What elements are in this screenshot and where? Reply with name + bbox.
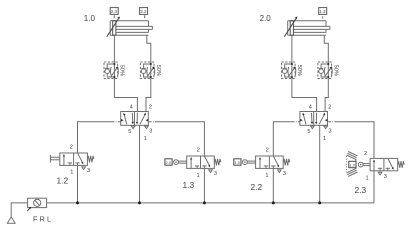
spring return of valve 2.2 <box>283 159 290 166</box>
wire: valve 2.2 port 1 to manifold <box>272 168 274 202</box>
svg-text:FRL: FRL <box>33 214 53 223</box>
pilot line from valve 1.3 to valve 1.1 port 12 <box>148 122 204 156</box>
wire: flow valve 2.02 to valve 2.1 port 2 <box>325 79 328 112</box>
svg-text:1.2: 1.2 <box>57 176 69 186</box>
junction node at valve 1.1 <box>138 201 141 204</box>
valve 1.2 exhaust triangle port 3 <box>82 167 86 170</box>
junction node flow valve bottom <box>113 76 115 78</box>
wire: valve 2.3 port 1 down to manifold corner <box>373 171 375 203</box>
svg-text:3: 3 <box>214 171 217 177</box>
svg-text:50%: 50% <box>118 65 124 76</box>
wire: cylinder 2.0 cap port down to flow valve 2.01 <box>291 35 293 62</box>
wire: cylinder 2.0 rod port down to flow valve 2.02 <box>324 35 328 62</box>
junction node at valve 1.3 <box>203 201 206 204</box>
one-way flow control valve 1.02 (50%) <box>140 62 160 79</box>
junction node flow valve bottom <box>327 76 329 78</box>
valve 1.1 port labels <box>128 105 152 143</box>
junction node at valve 2.1 <box>318 201 321 204</box>
wire: valve 1.1 port 1 to manifold <box>139 125 141 203</box>
junction node flow valve bottom <box>291 76 293 78</box>
svg-text:1: 1 <box>265 173 268 179</box>
valve 1.3 port labels <box>197 147 218 179</box>
svg-text:1: 1 <box>144 136 147 142</box>
wire: valve 1.2 port 1 to manifold <box>77 165 79 202</box>
cylinder 1.0 <box>110 21 152 35</box>
svg-text:2.0: 2.0 <box>166 160 172 165</box>
svg-text:5: 5 <box>307 129 310 135</box>
valve 1.2 port labels <box>70 144 90 175</box>
mechanical link label box of valve 2.3 <box>349 161 356 167</box>
ruler tick for box 2.2 <box>144 15 146 18</box>
spring return of valve 2.3 <box>398 161 405 168</box>
roller actuator of valve 2.2 <box>243 160 256 165</box>
svg-text:1.0: 1.0 <box>349 162 355 167</box>
svg-text:1: 1 <box>70 169 73 175</box>
svg-text:1.0: 1.0 <box>84 14 96 23</box>
valve 2.1 pilot arrow left <box>300 119 303 122</box>
sensor label box 1.3 above cylinder 2.0 <box>319 8 327 15</box>
valve 2.1 exhaust triangle port 3 <box>324 126 328 129</box>
valve 2.2 exhaust triangle port 3 <box>278 170 282 173</box>
cushioning arrow on cylinder 2.0 <box>284 16 297 36</box>
junction node flow valve top <box>327 63 329 65</box>
svg-text:2: 2 <box>328 105 331 111</box>
pilot line from valve 1.2 to valve 1.1 port 14 <box>78 122 121 153</box>
valve 2.1 exhaust triangle port 5 <box>311 126 315 129</box>
valve 1.1 exhaust triangle port 5 <box>131 126 135 129</box>
svg-text:2: 2 <box>149 105 152 111</box>
junction node flow valve bottom <box>150 76 152 78</box>
svg-text:3: 3 <box>87 168 90 174</box>
3/2-way roller valve 1.3 <box>187 156 215 168</box>
3/2-way roller valve 2.3 (actuated) <box>370 158 398 170</box>
svg-text:2: 2 <box>197 147 200 153</box>
supply manifold <box>47 202 374 204</box>
svg-text:4: 4 <box>130 105 133 111</box>
valve 2.3 exhaust triangle port 3 <box>378 172 382 175</box>
svg-text:3: 3 <box>149 129 152 135</box>
wire: valve 2.1 port 1 to manifold <box>319 125 321 203</box>
cushioning arrow on cylinder 1.0 <box>107 16 120 36</box>
air service unit FRL <box>28 198 47 207</box>
svg-text:3: 3 <box>384 174 387 180</box>
svg-text:2: 2 <box>364 151 367 157</box>
5/2-way double pilot valve 2.1 <box>300 112 328 126</box>
svg-text:2: 2 <box>70 144 73 150</box>
one-way flow control valve 2.01 (50%) <box>282 62 302 79</box>
ruler tick for box 2.3 <box>113 15 115 18</box>
svg-text:2.0: 2.0 <box>260 14 272 23</box>
ruler tick for box 1.3 <box>322 16 324 18</box>
compressed air source <box>7 217 15 223</box>
one-way flow control valve 1.01 (50%) <box>104 62 124 79</box>
svg-text:3: 3 <box>283 171 286 177</box>
svg-text:1: 1 <box>197 173 200 179</box>
wire: flow valve 1.01 to valve 1.1 port 4 <box>114 79 137 112</box>
svg-text:1: 1 <box>366 176 369 182</box>
svg-text:1: 1 <box>323 136 326 142</box>
cylinder 2.0 <box>288 21 330 35</box>
sensor label box 2.2 above cylinder 1.0 <box>140 8 148 15</box>
mechanical link label box of valve 1.3 <box>165 159 172 165</box>
svg-text:2.3: 2.3 <box>355 185 367 195</box>
wire: cylinder 1.0 rod port down to flow valve 1.02 <box>147 35 151 62</box>
svg-text:50%: 50% <box>296 65 302 76</box>
wire: cylinder 1.0 cap port down to flow valve 1.01 <box>113 35 115 62</box>
valve 2.1 port labels <box>307 105 331 143</box>
roller actuator of valve 1.3 <box>174 160 187 165</box>
cam wedge pressing valve 2.3 <box>346 152 357 177</box>
wire: flow valve 1.02 to valve 1.1 port 2 <box>146 79 151 112</box>
valve 1.1 pilot arrow left <box>121 119 124 122</box>
junction node flow valve top <box>150 63 152 65</box>
3/2-way roller valve 2.2 <box>256 156 284 168</box>
svg-text:50%: 50% <box>332 65 338 76</box>
svg-text:2.2: 2.2 <box>140 9 147 14</box>
svg-text:2.3: 2.3 <box>111 9 118 14</box>
roller actuator of valve 2.3 <box>358 162 370 167</box>
5/2-way double pilot valve 1.1 <box>121 112 149 126</box>
wire: valve 1.3 port 1 to manifold <box>203 168 205 202</box>
one-way flow control valve 2.02 (50%) <box>318 62 338 79</box>
junction node flow valve top <box>291 63 293 65</box>
valve 2.3 port labels <box>364 151 387 182</box>
valve 1.3 exhaust triangle port 3 <box>209 170 213 173</box>
pushbutton actuator of valve 1.2 <box>50 155 59 163</box>
junction node at valve 1.2 <box>76 201 79 204</box>
spring return of valve 1.2 <box>87 156 94 163</box>
wire: FRL to air supply <box>11 203 27 217</box>
svg-text:3: 3 <box>329 129 332 135</box>
sensor label box 2.3 above cylinder 1.0 <box>110 8 118 15</box>
wire: flow valve 2.01 to valve 2.1 port 4 <box>292 79 317 112</box>
svg-text:2: 2 <box>266 147 269 153</box>
FRL adjustment arrow <box>27 207 31 211</box>
svg-text:50%: 50% <box>155 65 161 76</box>
valve 2.1 pilot arrow right <box>325 119 328 122</box>
svg-text:4: 4 <box>309 105 312 111</box>
svg-text:2.2: 2.2 <box>251 182 263 192</box>
valve 1.1 exhaust triangle port 3 <box>145 126 149 129</box>
mechanical link label box of valve 2.2 <box>234 159 241 165</box>
pilot line from valve 2.3 to valve 2.1 port 12 <box>328 122 375 159</box>
pilot line from valve 2.2 to valve 2.1 port 14 <box>273 122 300 156</box>
valve 1.1 pilot arrow right <box>146 119 149 122</box>
3/2-way pushbutton valve 1.2 <box>60 153 88 165</box>
svg-text:1.3: 1.3 <box>183 180 195 190</box>
junction node flow valve top <box>113 63 115 65</box>
valve 2.2 port labels <box>265 147 286 179</box>
spring return of valve 1.3 <box>214 159 221 166</box>
junction node at valve 2.2 <box>272 201 275 204</box>
svg-text:1.3: 1.3 <box>319 9 326 14</box>
svg-text:5: 5 <box>128 129 131 135</box>
svg-text:1.0: 1.0 <box>234 160 240 165</box>
